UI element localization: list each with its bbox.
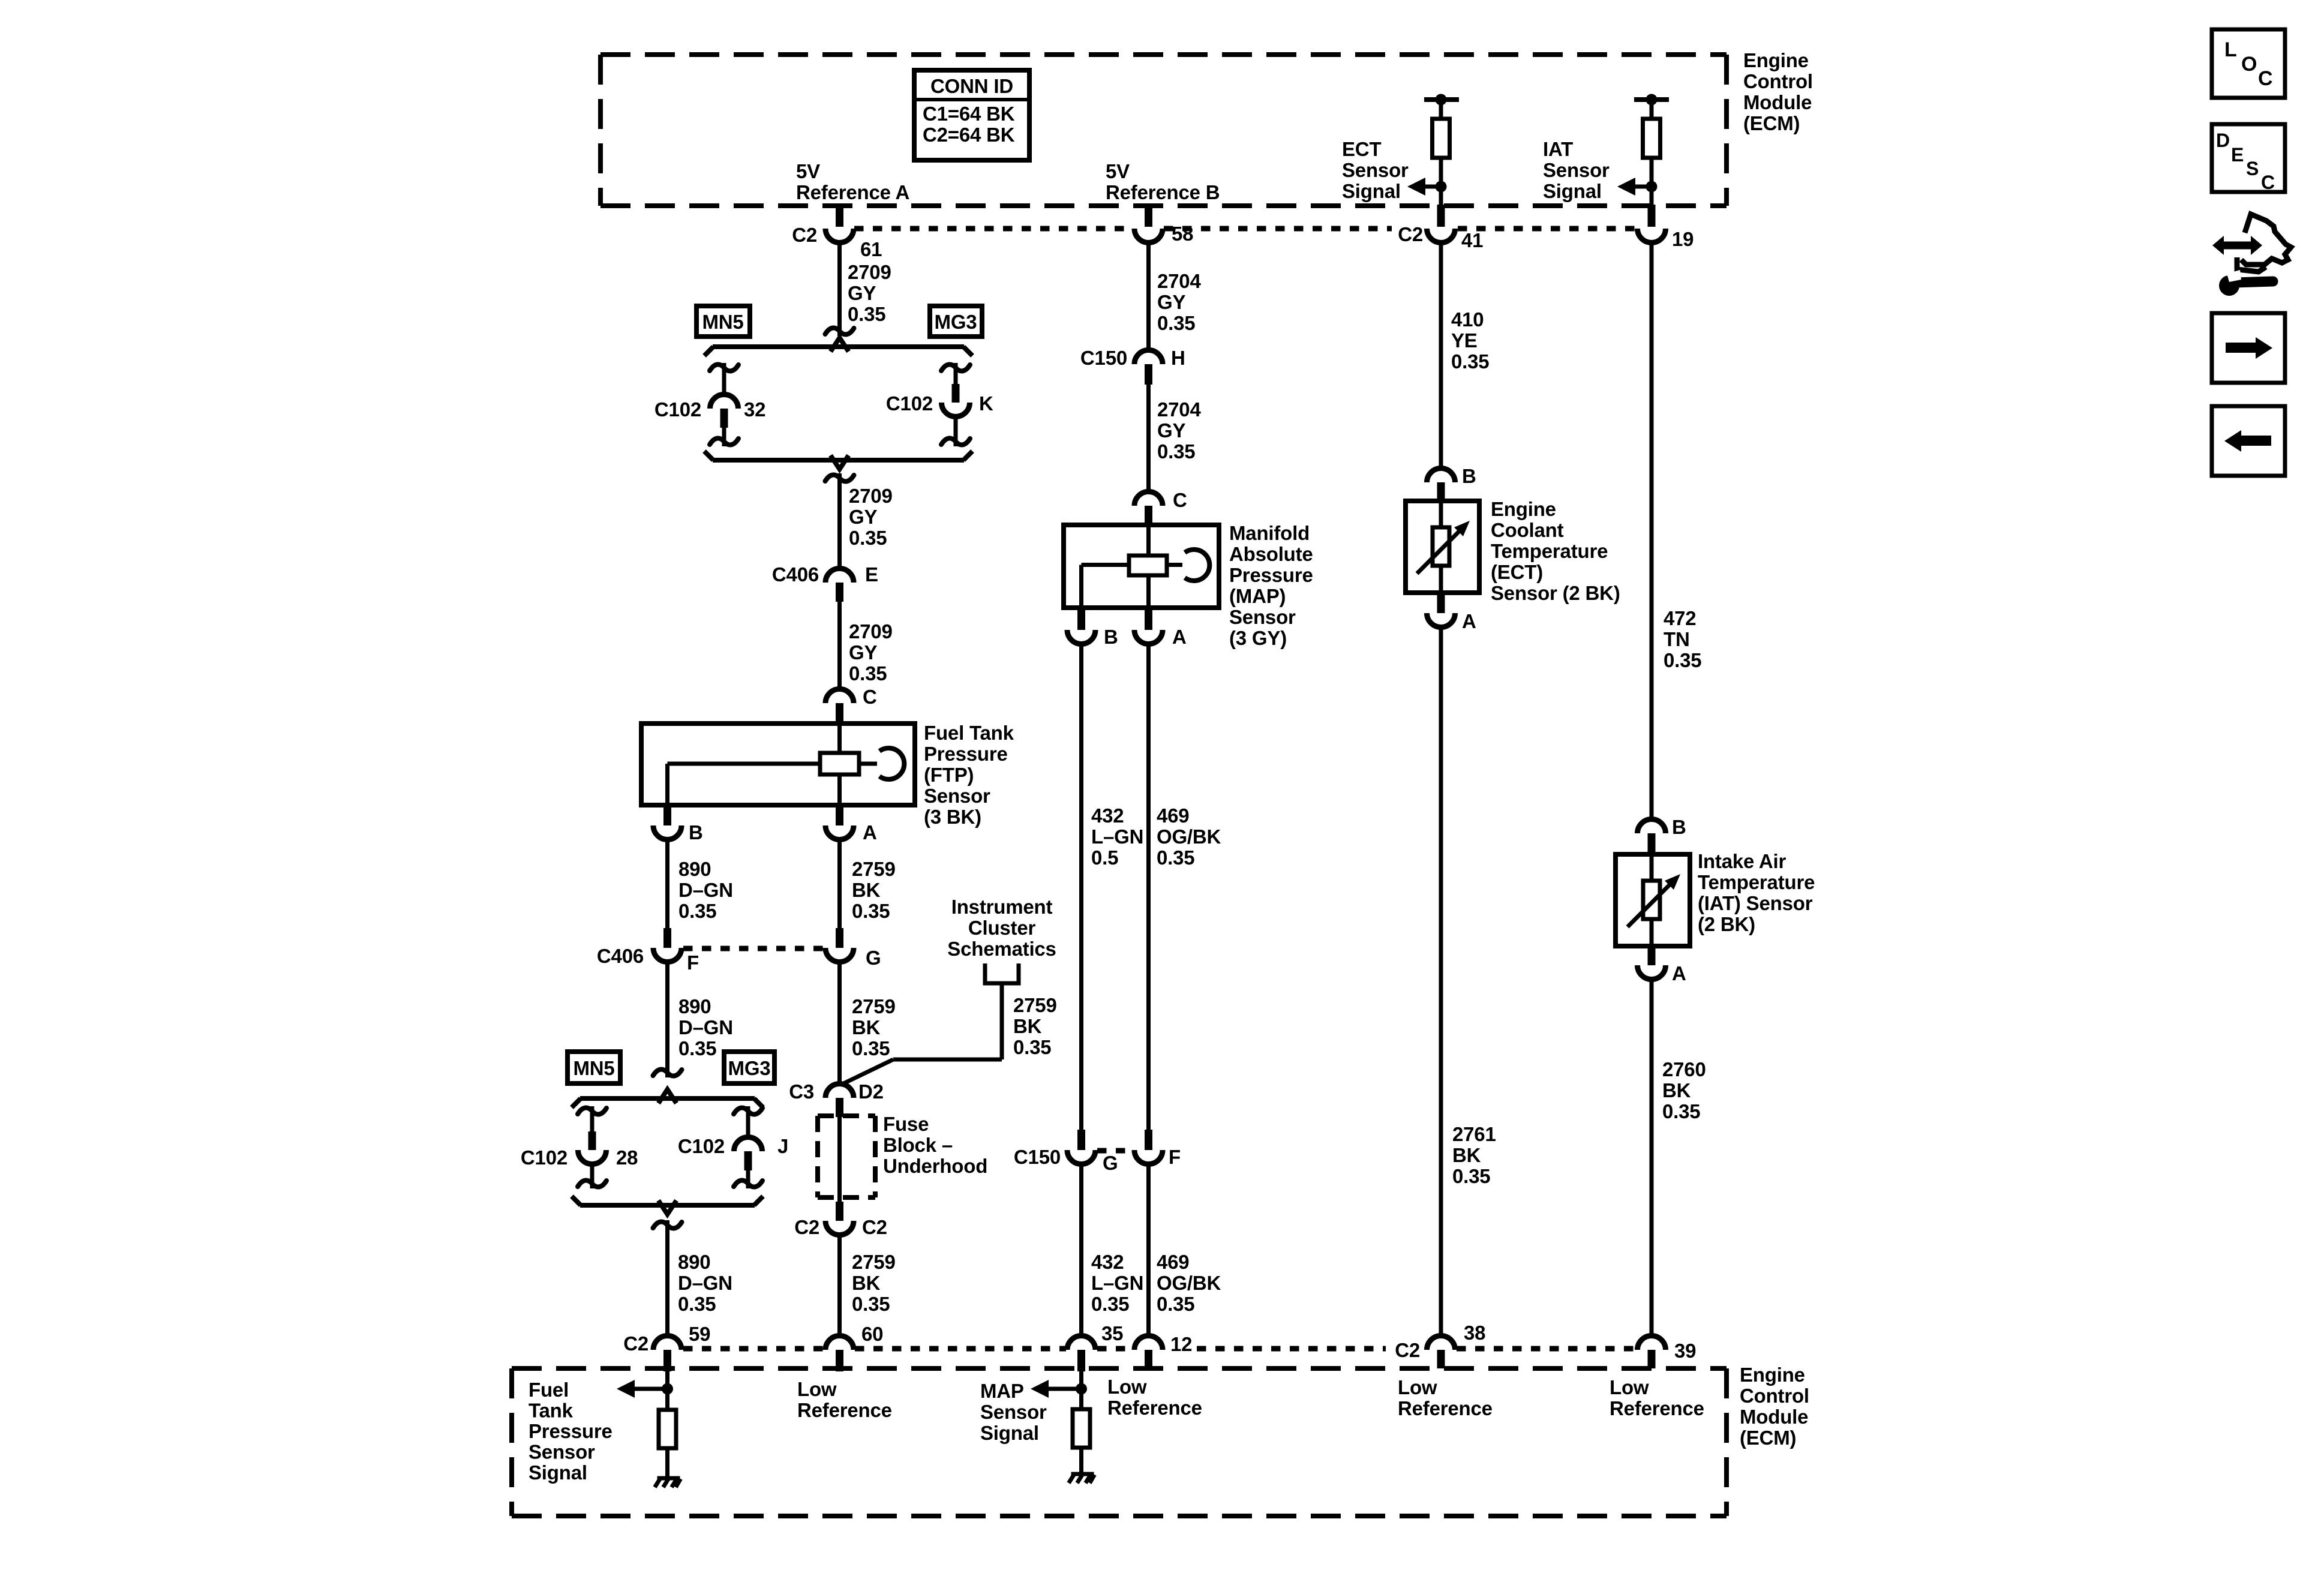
label Fuse Block - Underhood [883, 1113, 987, 1177]
resistor MAP pull-down [1073, 1409, 1090, 1473]
svg-text:2759: 2759 [852, 1251, 896, 1273]
svg-text:0.35: 0.35 [1013, 1036, 1051, 1058]
svg-text:Sensor: Sensor [980, 1401, 1047, 1423]
connector pin 60 [825, 1323, 883, 1371]
svg-text:890: 890 [678, 1251, 710, 1273]
dotted connector line bottom row [683, 1346, 1637, 1352]
FTP sensor element [668, 724, 905, 805]
svg-text:MAP: MAP [980, 1380, 1024, 1402]
svg-text:(FTP): (FTP) [924, 764, 974, 786]
svg-text:Control: Control [1740, 1385, 1809, 1407]
svg-text:0.35: 0.35 [1451, 350, 1489, 373]
MAP sensor box [1064, 525, 1219, 608]
svg-text:(3 GY): (3 GY) [1229, 627, 1287, 649]
wire 469 OG/BK (b) [1146, 1164, 1151, 1335]
svg-text:Fuse: Fuse [883, 1113, 929, 1135]
connector C406 pin F [597, 928, 699, 974]
wire 890 D-GN (a) [665, 840, 669, 928]
label wire 890 D-GN 0.35 (a) [678, 858, 733, 922]
wire 890 D-GN (c) [653, 1220, 682, 1335]
wire 2709 GY below join [825, 473, 854, 568]
svg-text:61: 61 [860, 238, 882, 260]
node ECT sensor signal junction [1436, 181, 1447, 193]
svg-text:Absolute: Absolute [1229, 543, 1313, 565]
svg-text:432: 432 [1091, 804, 1124, 827]
svg-text:Sensor: Sensor [1229, 606, 1296, 628]
wire below C102 32 [710, 428, 738, 446]
MAP sensor element [1082, 525, 1210, 608]
svg-text:Low: Low [797, 1378, 837, 1400]
connector C2 pin 59 [623, 1323, 710, 1371]
ECM top box label Engine Control Module (ECM) [1743, 49, 1813, 134]
svg-text:410: 410 [1451, 308, 1484, 331]
label Low Reference (38) [1398, 1376, 1493, 1419]
svg-text:D–GN: D–GN [678, 1272, 732, 1294]
connector C102 pin J [678, 1135, 788, 1170]
svg-text:2709: 2709 [849, 620, 893, 643]
arrow IAT Sensor Signal [1617, 178, 1652, 196]
wire 2759 BK (c) [837, 1235, 842, 1335]
svg-text:Schematics: Schematics [947, 938, 1056, 960]
svg-text:Signal: Signal [529, 1461, 587, 1484]
svg-text:C: C [2261, 172, 2275, 193]
svg-text:K: K [979, 392, 993, 415]
svg-text:B: B [1672, 816, 1686, 838]
svg-text:OG/BK: OG/BK [1157, 825, 1221, 848]
svg-text:BK: BK [852, 1016, 881, 1038]
connector MAP pin A [1134, 608, 1187, 648]
svg-text:Engine: Engine [1743, 49, 1809, 71]
svg-text:(MAP): (MAP) [1229, 585, 1286, 607]
svg-text:E: E [865, 563, 878, 586]
svg-text:GY: GY [848, 282, 876, 304]
wire right option branch [941, 363, 970, 384]
label wire 472 TN 0.35 [1664, 607, 1701, 671]
label Low Reference (60) [797, 1378, 892, 1421]
arrow MAP Sensor Signal [1031, 1380, 1082, 1398]
svg-text:Reference A: Reference A [796, 181, 909, 203]
svg-text:5V: 5V [1106, 160, 1130, 182]
splice tilde above MN5/MG3 split [825, 328, 854, 335]
wire 2761 BK [1439, 628, 1443, 1335]
ground MAP [1069, 1473, 1095, 1483]
connector C150 pin H [1080, 347, 1185, 385]
svg-text:C406: C406 [772, 563, 819, 586]
svg-text:Control: Control [1743, 70, 1813, 92]
connector pin 35 [1067, 1322, 1123, 1371]
svg-text:TN: TN [1664, 628, 1690, 650]
svg-text:0.35: 0.35 [1157, 312, 1195, 334]
svg-text:Engine: Engine [1740, 1364, 1805, 1386]
svg-text:B: B [1104, 626, 1118, 648]
svg-text:L–GN: L–GN [1091, 1272, 1143, 1294]
connector C406 pin E [772, 563, 878, 602]
svg-text:Temperature: Temperature [1698, 871, 1815, 893]
svg-text:(ECT): (ECT) [1491, 561, 1543, 583]
svg-text:C150: C150 [1080, 347, 1127, 369]
label wire 2709 GY 0.35 (a) [848, 261, 891, 325]
connector FTP pin B [653, 805, 703, 843]
svg-text:59: 59 [689, 1323, 710, 1345]
label Fuel Tank Pressure Sensor Signal [529, 1379, 612, 1484]
label wire 2759 BK 0.35 (b) [852, 995, 896, 1059]
svg-text:A: A [1172, 626, 1187, 648]
connector FTP pin C [825, 686, 877, 724]
MN5 option box [696, 306, 750, 337]
label wire 2704 GY 0.35 (a) [1157, 270, 1201, 334]
svg-text:(2 BK): (2 BK) [1698, 913, 1755, 935]
svg-text:Reference: Reference [797, 1399, 892, 1421]
label Intake Air Temperature (IAT) Sensor (2 BK) [1698, 850, 1815, 935]
dashed line C406 F to G [683, 946, 825, 951]
svg-text:890: 890 [678, 995, 711, 1017]
svg-text:0.35: 0.35 [852, 1037, 890, 1059]
svg-text:0.35: 0.35 [1157, 846, 1194, 869]
ECT pull-up rail bar [1424, 94, 1459, 106]
MG3 option box [930, 306, 982, 337]
svg-text:Module: Module [1740, 1406, 1808, 1428]
wire 2709 GY to FTP [837, 602, 842, 689]
splice tilde above second split [653, 1070, 682, 1076]
wire 2704 GY to MAP [1146, 385, 1151, 491]
svg-text:BK: BK [1662, 1079, 1691, 1101]
wire 432 L-GN (b) [1079, 1164, 1083, 1335]
svg-text:C2: C2 [1395, 1339, 1420, 1361]
svg-text:L: L [2224, 38, 2237, 61]
svg-text:Block –: Block – [883, 1134, 953, 1156]
wire left option branch [710, 363, 738, 394]
svg-text:0.35: 0.35 [852, 900, 890, 922]
label wire 469 OG/BK 0.35 (b) [1157, 1251, 1221, 1315]
brace option split 2 [572, 1089, 763, 1107]
svg-text:(ECM): (ECM) [1740, 1427, 1796, 1449]
svg-text:S: S [2246, 158, 2259, 179]
connector C2 pin 38 [1395, 1322, 1485, 1368]
connector pin 12 [1134, 1333, 1192, 1368]
arrow ECT Sensor Signal [1407, 178, 1441, 196]
svg-text:GY: GY [849, 641, 877, 664]
instrument cluster bracket [985, 963, 1019, 983]
wire 890 D-GN (b) [665, 962, 669, 1077]
svg-text:0.5: 0.5 [1091, 846, 1118, 869]
svg-text:5V: 5V [796, 160, 820, 182]
svg-text:Intake Air: Intake Air [1698, 850, 1786, 872]
wire 2709 GY from pin 61 [837, 242, 842, 336]
label wire 2760 BK 0.35 [1662, 1058, 1706, 1122]
svg-text:2759: 2759 [852, 858, 896, 880]
svg-text:C2=64 BK: C2=64 BK [923, 124, 1015, 146]
connector C102 pin K [886, 384, 993, 417]
svg-text:Cluster: Cluster [968, 917, 1036, 939]
svg-text:Sensor: Sensor [529, 1441, 595, 1463]
svg-text:Tank: Tank [529, 1400, 574, 1422]
svg-text:B: B [1462, 465, 1476, 487]
node MAP signal junction [1076, 1371, 1087, 1409]
svg-text:Sensor: Sensor [924, 785, 990, 807]
icon LOC box [2212, 29, 2285, 98]
svg-text:2759: 2759 [852, 995, 896, 1017]
svg-text:39: 39 [1674, 1340, 1696, 1362]
label Low Reference (39) [1610, 1376, 1704, 1419]
wire 2760 BK [1650, 980, 1654, 1335]
connector FTP pin A [825, 805, 877, 843]
svg-text:Fuel Tank: Fuel Tank [924, 722, 1014, 744]
svg-text:GY: GY [1157, 419, 1185, 442]
svg-text:(ECM): (ECM) [1743, 112, 1800, 134]
arrow Fuel Tank Pressure Sensor Signal [617, 1380, 668, 1398]
resistor ECT pull-up [1433, 100, 1450, 206]
resistor IAT pull-up [1643, 100, 1661, 206]
svg-text:BK: BK [1013, 1015, 1042, 1037]
wire below C102 28 [578, 1164, 606, 1188]
svg-text:Pressure: Pressure [529, 1420, 612, 1442]
label wire 2761 BK 0.35 [1452, 1123, 1496, 1187]
svg-text:GY: GY [849, 506, 877, 528]
connector pin 39 [1638, 1335, 1697, 1368]
svg-text:Low: Low [1610, 1376, 1649, 1398]
svg-text:32: 32 [744, 398, 765, 421]
thermistor ECT [1417, 501, 1470, 593]
svg-text:469: 469 [1157, 804, 1189, 827]
connector IAT pin B [1638, 816, 1686, 854]
wire 410 YE [1439, 243, 1443, 468]
svg-text:Module: Module [1743, 91, 1812, 113]
wire 2759 BK from instrument cluster [841, 983, 1002, 1085]
wire through fuse block [837, 1117, 842, 1202]
IAT sensor box [1616, 854, 1690, 946]
svg-text:C2: C2 [792, 224, 817, 246]
svg-text:C150: C150 [1014, 1146, 1061, 1168]
wire 472 TN [1650, 243, 1654, 819]
label IAT Sensor Signal [1543, 138, 1610, 202]
svg-text:2759: 2759 [1013, 994, 1057, 1016]
svg-text:0.35: 0.35 [1091, 1293, 1129, 1315]
label wire 2704 GY 0.35 (b) [1157, 398, 1201, 463]
svg-text:C102: C102 [678, 1135, 725, 1157]
svg-text:A: A [863, 821, 877, 843]
svg-text:Sensor (2 BK): Sensor (2 BK) [1491, 582, 1620, 604]
svg-text:12: 12 [1170, 1333, 1192, 1355]
svg-text:C1=64 BK: C1=64 BK [923, 103, 1015, 125]
ECT sensor box [1406, 501, 1479, 593]
svg-text:2704: 2704 [1157, 270, 1201, 292]
svg-text:MN5: MN5 [702, 311, 743, 333]
dotted connector line top row [854, 226, 1637, 232]
wire 2759 BK (b) [837, 962, 842, 1083]
svg-text:OG/BK: OG/BK [1157, 1272, 1221, 1294]
svg-text:0.35: 0.35 [1664, 649, 1701, 671]
svg-text:Pressure: Pressure [924, 743, 1008, 765]
svg-text:Fuel: Fuel [529, 1379, 569, 1401]
svg-text:IAT: IAT [1543, 138, 1573, 160]
svg-text:60: 60 [861, 1323, 883, 1345]
connector C102 pin 28 [521, 1131, 638, 1169]
svg-text:19: 19 [1672, 228, 1694, 250]
svg-text:0.35: 0.35 [678, 1293, 716, 1315]
label Engine Coolant Temperature (ECT) Sensor (2 BK) [1491, 498, 1620, 604]
wire 2759 BK (a) [837, 840, 842, 928]
svg-text:41: 41 [1461, 229, 1483, 251]
svg-text:B: B [689, 821, 703, 843]
label 5V Reference B [1106, 160, 1220, 203]
svg-text:Signal: Signal [980, 1422, 1039, 1444]
wire below C102 J [734, 1170, 762, 1188]
label wire 2759 BK 0.35 (c) [852, 1251, 896, 1315]
svg-text:C2: C2 [862, 1216, 887, 1238]
MN5 option box 2 [568, 1052, 620, 1083]
node IAT sensor signal junction [1646, 181, 1658, 193]
label ECT Sensor Signal [1342, 138, 1409, 202]
svg-text:H: H [1171, 347, 1185, 369]
svg-text:C3: C3 [789, 1080, 814, 1103]
label wire 469 OG/BK 0.35 (a) [1157, 804, 1221, 869]
svg-text:0.35: 0.35 [849, 662, 887, 685]
wire right branch 2 [734, 1106, 762, 1137]
connector pin G [825, 928, 881, 969]
svg-text:Temperature: Temperature [1491, 540, 1608, 562]
ECM top box (dashed) [600, 55, 1727, 206]
svg-text:O: O [2241, 53, 2257, 76]
connector pin 58 [1134, 205, 1193, 245]
svg-text:0.35: 0.35 [1662, 1100, 1700, 1122]
connector IAT pin A [1638, 946, 1686, 984]
node FTP signal junction [662, 1371, 673, 1410]
MG3 option box 2 [724, 1052, 774, 1083]
wire 469 OG/BK (a) [1146, 644, 1151, 1130]
svg-text:890: 890 [678, 858, 711, 880]
connector pin 19 [1638, 205, 1694, 250]
svg-text:BK: BK [1452, 1144, 1481, 1166]
svg-text:E: E [2231, 144, 2244, 166]
svg-text:C: C [863, 686, 877, 708]
label wire 432 L-GN 0.5 [1091, 804, 1143, 869]
svg-text:BK: BK [852, 1272, 881, 1294]
svg-text:432: 432 [1091, 1251, 1124, 1273]
svg-text:Low: Low [1398, 1376, 1437, 1398]
label wire 410 YE 0.35 [1451, 308, 1489, 373]
svg-text:L–GN: L–GN [1091, 825, 1143, 848]
svg-text:D–GN: D–GN [678, 879, 733, 901]
svg-text:Engine: Engine [1491, 498, 1556, 520]
icon DESC box [2212, 124, 2285, 193]
connector C2 pin 41 [1398, 205, 1483, 251]
wire below C102 K [941, 417, 970, 446]
svg-text:Signal: Signal [1543, 180, 1602, 202]
svg-text:2709: 2709 [848, 261, 891, 283]
svg-text:472: 472 [1664, 607, 1696, 629]
label wire 432 L-GN 0.35 [1091, 1251, 1143, 1315]
svg-text:A: A [1462, 610, 1476, 632]
connector C150 pin F [1134, 1130, 1181, 1168]
connector C150 pin G [1014, 1130, 1118, 1174]
label Manifold Absolute Pressure (MAP) Sensor (3 GY) [1229, 522, 1313, 649]
svg-text:0.35: 0.35 [849, 527, 887, 549]
svg-text:C102: C102 [886, 392, 933, 415]
svg-text:Signal: Signal [1342, 180, 1401, 202]
svg-text:BK: BK [852, 879, 881, 901]
svg-text:0.35: 0.35 [852, 1293, 890, 1315]
svg-text:Reference: Reference [1107, 1397, 1202, 1419]
svg-text:0.35: 0.35 [678, 900, 716, 922]
label Instrument Cluster Schematics [947, 896, 1056, 960]
svg-text:Low: Low [1107, 1376, 1147, 1398]
svg-text:Manifold: Manifold [1229, 522, 1310, 544]
CONN ID table [914, 70, 1029, 160]
svg-text:Sensor: Sensor [1342, 159, 1409, 181]
svg-text:MG3: MG3 [728, 1057, 771, 1079]
wire 2704 GY from pin 58 [1146, 243, 1151, 350]
icon next box (right arrow) [2212, 313, 2285, 383]
Fuse Block Underhood box (dashed) [818, 1116, 875, 1197]
svg-text:Pressure: Pressure [1229, 564, 1313, 586]
svg-text:C2: C2 [623, 1332, 648, 1355]
svg-text:F: F [1169, 1146, 1181, 1168]
label MAP Sensor Signal [980, 1380, 1047, 1444]
svg-text:0.35: 0.35 [1157, 440, 1195, 463]
svg-text:2760: 2760 [1662, 1058, 1706, 1080]
svg-text:2709: 2709 [849, 485, 893, 507]
label Fuel Tank Pressure (FTP) Sensor (3 BK) [924, 722, 1014, 828]
FTP sensor box [641, 724, 915, 805]
svg-text:C102: C102 [521, 1146, 568, 1169]
connector MAP pin B [1067, 608, 1118, 648]
svg-text:38: 38 [1464, 1322, 1485, 1344]
wire 432 L-GN (a) [1079, 644, 1083, 1130]
svg-text:GY: GY [1157, 291, 1185, 313]
svg-text:C2: C2 [1398, 223, 1423, 245]
connector MAP pin C [1134, 489, 1187, 525]
svg-text:28: 28 [616, 1146, 638, 1169]
svg-text:0.35: 0.35 [1157, 1293, 1194, 1315]
svg-text:C: C [2258, 67, 2272, 90]
svg-text:D: D [2216, 130, 2230, 151]
svg-text:Coolant: Coolant [1491, 519, 1564, 541]
svg-text:CONN ID: CONN ID [930, 75, 1013, 97]
ECM bottom box (dashed) [512, 1368, 1727, 1516]
svg-text:D2: D2 [858, 1080, 884, 1103]
label wire 2759 BK 0.35 (instr) [1013, 994, 1057, 1058]
label wire 2709 GY 0.35 (b) [849, 485, 893, 549]
connector C2 pin 61 [792, 205, 882, 260]
svg-text:MN5: MN5 [573, 1057, 614, 1079]
svg-text:Underhood: Underhood [883, 1155, 987, 1177]
svg-text:D–GN: D–GN [678, 1016, 733, 1038]
label 5V Reference A [796, 160, 909, 203]
icon back box (left arrow) [2212, 406, 2285, 476]
svg-text:Reference B: Reference B [1106, 181, 1220, 203]
svg-text:Reference: Reference [1398, 1397, 1493, 1419]
brace option join [704, 451, 972, 469]
svg-text:G: G [1103, 1152, 1118, 1174]
brace option split [704, 338, 972, 356]
svg-text:(3 BK): (3 BK) [924, 806, 981, 828]
svg-text:F: F [687, 951, 699, 974]
ECM bottom box label Engine Control Module (ECM) [1740, 1364, 1809, 1449]
ground FTP [655, 1478, 681, 1487]
label Low Reference (12) [1107, 1376, 1202, 1419]
resistor FTP pull-down [659, 1410, 676, 1477]
svg-text:YE: YE [1451, 329, 1478, 352]
brace option join 2 [572, 1196, 763, 1214]
connector C3 pin D2 [789, 1080, 884, 1117]
connector ECT pin A [1427, 593, 1476, 632]
label wire 2759 BK 0.35 (a) [852, 858, 896, 922]
svg-text:2704: 2704 [1157, 398, 1201, 421]
svg-text:C102: C102 [654, 398, 701, 421]
svg-text:ECT: ECT [1342, 138, 1381, 160]
svg-text:C406: C406 [597, 945, 644, 967]
svg-text:C2: C2 [794, 1216, 819, 1238]
